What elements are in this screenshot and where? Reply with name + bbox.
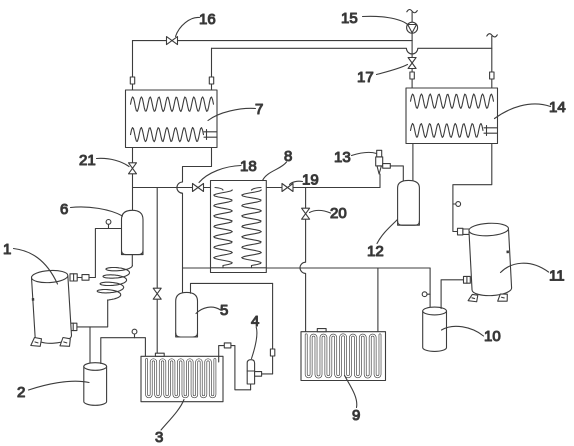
valve 17 (408, 58, 416, 69)
tank 5 (vertical receiver) (176, 292, 198, 337)
label 6 (60, 201, 123, 218)
component 4 right nozzle (255, 372, 262, 377)
HX14 lower coil (411, 124, 484, 138)
wire bottom line through HX8 (211, 267, 267, 269)
label 7 (208, 101, 263, 121)
tank1 upper port fitting (70, 274, 77, 281)
wire HX7 left down through valve 21 to junction and tank 6 (132, 148, 134, 211)
label 12 (367, 220, 398, 261)
svg-text:16: 16 (199, 11, 216, 28)
wire HX7-left drop from line A to HX7 top (132, 41, 134, 90)
tank11 upper port fittings (458, 228, 471, 235)
HX8 right coil top connector (252, 188, 262, 268)
wire main header y=187.5 from x=132.5 to HX8 left (133, 187, 211, 189)
wire tank6 left port to x=95.4 then down to y=277.5 then left to tank1 upper port (77, 229, 121, 278)
svg-text:15: 15 (341, 10, 358, 27)
HX3 serpentine tube (147, 360, 215, 397)
gauge on tank10 feed line (422, 292, 430, 297)
wire bottom line corner x=430 down to tank 10 (429, 268, 431, 308)
svg-text:1: 1 (3, 241, 11, 258)
svg-text:10: 10 (484, 328, 501, 345)
node: break squiggle on HX14 right riser (487, 34, 498, 37)
spring coil between tank 6 and tank 1 circuit (97, 266, 132, 301)
svg-text:6: 6 (60, 201, 68, 218)
pin tick on riser x=272.6 (270, 349, 274, 356)
wire from comp4 nozzle right to riser x=272.6 (262, 373, 273, 375)
label 2 (17, 381, 89, 401)
heat exchanger 3 (finned coil box) (141, 356, 223, 401)
node: break squiggle above component 15 (407, 9, 418, 12)
label 18 (199, 158, 257, 183)
wire tank2 top to HX3 top-left via y=337.7 (101, 338, 146, 364)
HX7 right nozzle (204, 130, 217, 140)
valve (on HX3 feed line) (153, 288, 161, 299)
svg-text:7: 7 (255, 101, 263, 118)
svg-text:2: 2 (17, 384, 25, 401)
HX8 right coil (242, 190, 262, 266)
label 11 (501, 263, 565, 284)
svg-text:8: 8 (284, 148, 292, 165)
svg-text:17: 17 (357, 69, 374, 86)
svg-text:9: 9 (352, 407, 360, 424)
heat exchanger 7 (shell box) (126, 90, 218, 148)
svg-text:5: 5 (220, 302, 228, 319)
gauge on HX3 feed line (132, 329, 137, 338)
label 17 (357, 65, 408, 87)
gauge on tank6 line (106, 220, 111, 229)
tank 12 (398, 180, 420, 225)
label 3 (155, 400, 184, 446)
riser x=272.6 down to comp4 nozzle level (272, 283, 274, 374)
valve 16 (167, 37, 178, 45)
svg-text:21: 21 (79, 152, 96, 169)
label 10 (442, 326, 501, 345)
valve 20 (302, 208, 310, 219)
heat exchanger 14 (shell box) (406, 88, 498, 144)
wire from squiggle down to component 15 (411, 12, 413, 22)
HX14 right nozzle (484, 126, 498, 136)
label 14 (495, 99, 566, 119)
wire header corner up to component 13 (379, 174, 381, 188)
label 4 (251, 313, 259, 359)
wire comp13 nozzle right then down to tank 12 (390, 166, 403, 181)
label 15 (341, 10, 407, 27)
svg-text:11: 11 (549, 268, 565, 285)
HX14 upper coil (411, 94, 494, 108)
weld dot on tank11 right side (506, 251, 509, 254)
svg-text:14: 14 (549, 99, 566, 116)
label 13 (334, 149, 377, 166)
label 1 (3, 241, 58, 284)
label 5 (196, 302, 228, 319)
pin tick HX7 left inlet (130, 77, 134, 84)
wire top line A from HX7-left corner to node above HX14-left (133, 40, 413, 42)
wire header from HX8 right through valve 19 to riser x=380 (266, 187, 380, 189)
wire HX14-right riser from squiggle down to HX14 top (491, 36, 493, 88)
tank1 foot right (60, 338, 70, 347)
pin tick HX7 right inlet (209, 77, 213, 84)
component 13 side nozzle (383, 164, 391, 169)
HX7 upper coil (131, 97, 214, 112)
wire tank6 bottom stub to spring (131, 255, 133, 266)
wire drop to tank 5 left port (182, 268, 184, 293)
label 16 (176, 11, 216, 37)
wire branch down to tank 2 (89, 327, 91, 363)
HX3 top tab (155, 353, 164, 356)
svg-text:20: 20 (330, 205, 347, 222)
HX8 left coil (214, 190, 233, 266)
gauge on tank11 feed line (453, 202, 461, 207)
wire branch x=157.2 down through shut-off valve to HX3 tab (156, 188, 158, 354)
tank1 foot left (31, 338, 42, 347)
wire tank11 lower port left then down to tank 10 (441, 280, 463, 309)
pin tick HX14 right inlet (490, 72, 494, 79)
weld dot on tank1 left side (32, 298, 35, 301)
wire HX14 right bottom down, left, down to tank 11 upper port (453, 144, 492, 232)
tank11 lower port fitting (464, 276, 471, 283)
tank 1 (large accumulator, slightly tilted) (30, 269, 72, 344)
svg-text:12: 12 (367, 243, 384, 260)
wire branch down to HX9 top right (377, 268, 379, 335)
wire HX14 left bottom down to tank 12 (412, 144, 414, 182)
valve 21 (129, 163, 137, 174)
tank 6 (receiver) (122, 210, 144, 254)
label 9 (345, 376, 361, 425)
tank11 foot right (497, 294, 507, 302)
HX8 left coil top connector (215, 188, 223, 268)
wire HX7-right drop from line B to HX7 top (211, 48, 213, 90)
tank1 lower port fitting (70, 323, 77, 330)
tank 11 (large tank, slightly tilted) (464, 222, 512, 303)
component 15 (pressure relief valve: circle with triangle) (407, 22, 418, 33)
svg-text:4: 4 (251, 313, 259, 330)
svg-text:19: 19 (302, 172, 319, 189)
tank 10 (small cylinder) (423, 307, 447, 351)
label 8 (263, 148, 293, 181)
valve 18 (193, 184, 204, 192)
heat exchanger 9 (finned coil box) (301, 332, 386, 381)
wire spring end down to y=327 then left to tank1 lower port (77, 300, 108, 327)
component 4 (filter-drier) (247, 360, 254, 384)
label 20 (310, 205, 347, 222)
wire comp4 bottom to HX3 outlet loop (250, 384, 252, 390)
component 13 (expansion valve) (376, 150, 383, 174)
tank11 foot left (468, 294, 478, 302)
wire branch x=305.6 from header down through valve 20, hop over bottom line, to HX9 top (300, 188, 306, 336)
coupling on HX3 outlet (224, 343, 231, 348)
HX9 serpentine tube (306, 335, 380, 377)
HX3 internal outlet line up to external coupling (219, 346, 251, 390)
pin tick HX14 left inlet (410, 72, 414, 79)
coupling on tank1 upper line (82, 275, 89, 281)
HX9 top tab (317, 329, 326, 332)
wire header inside HX8 connecting coil tops (211, 187, 267, 189)
wire bottom line y=268 from x=182.5 to corner x=430 (183, 267, 431, 269)
wire tank5 right-top to y=283.4 then right to riser x=272.6 (191, 283, 273, 293)
wire from component 15 down through valve 17 to HX14 top (411, 33, 413, 88)
tank 2 (small cylinder) (84, 363, 107, 406)
HX7 lower coil (131, 128, 204, 142)
label 19 (290, 172, 319, 189)
svg-text:3: 3 (155, 429, 163, 446)
label 21 (79, 152, 129, 169)
wire from HX7 right bottom: down, left, then down over header (hop) to bottom line (177, 148, 212, 269)
heat exchanger 8 (plate/coil box) (211, 181, 267, 273)
valve 19 (282, 184, 293, 192)
svg-text:18: 18 (240, 158, 257, 175)
svg-text:13: 13 (334, 149, 351, 166)
wire top line B from HX7-right to HX14-right with crossover hop at x=412 (212, 48, 492, 54)
